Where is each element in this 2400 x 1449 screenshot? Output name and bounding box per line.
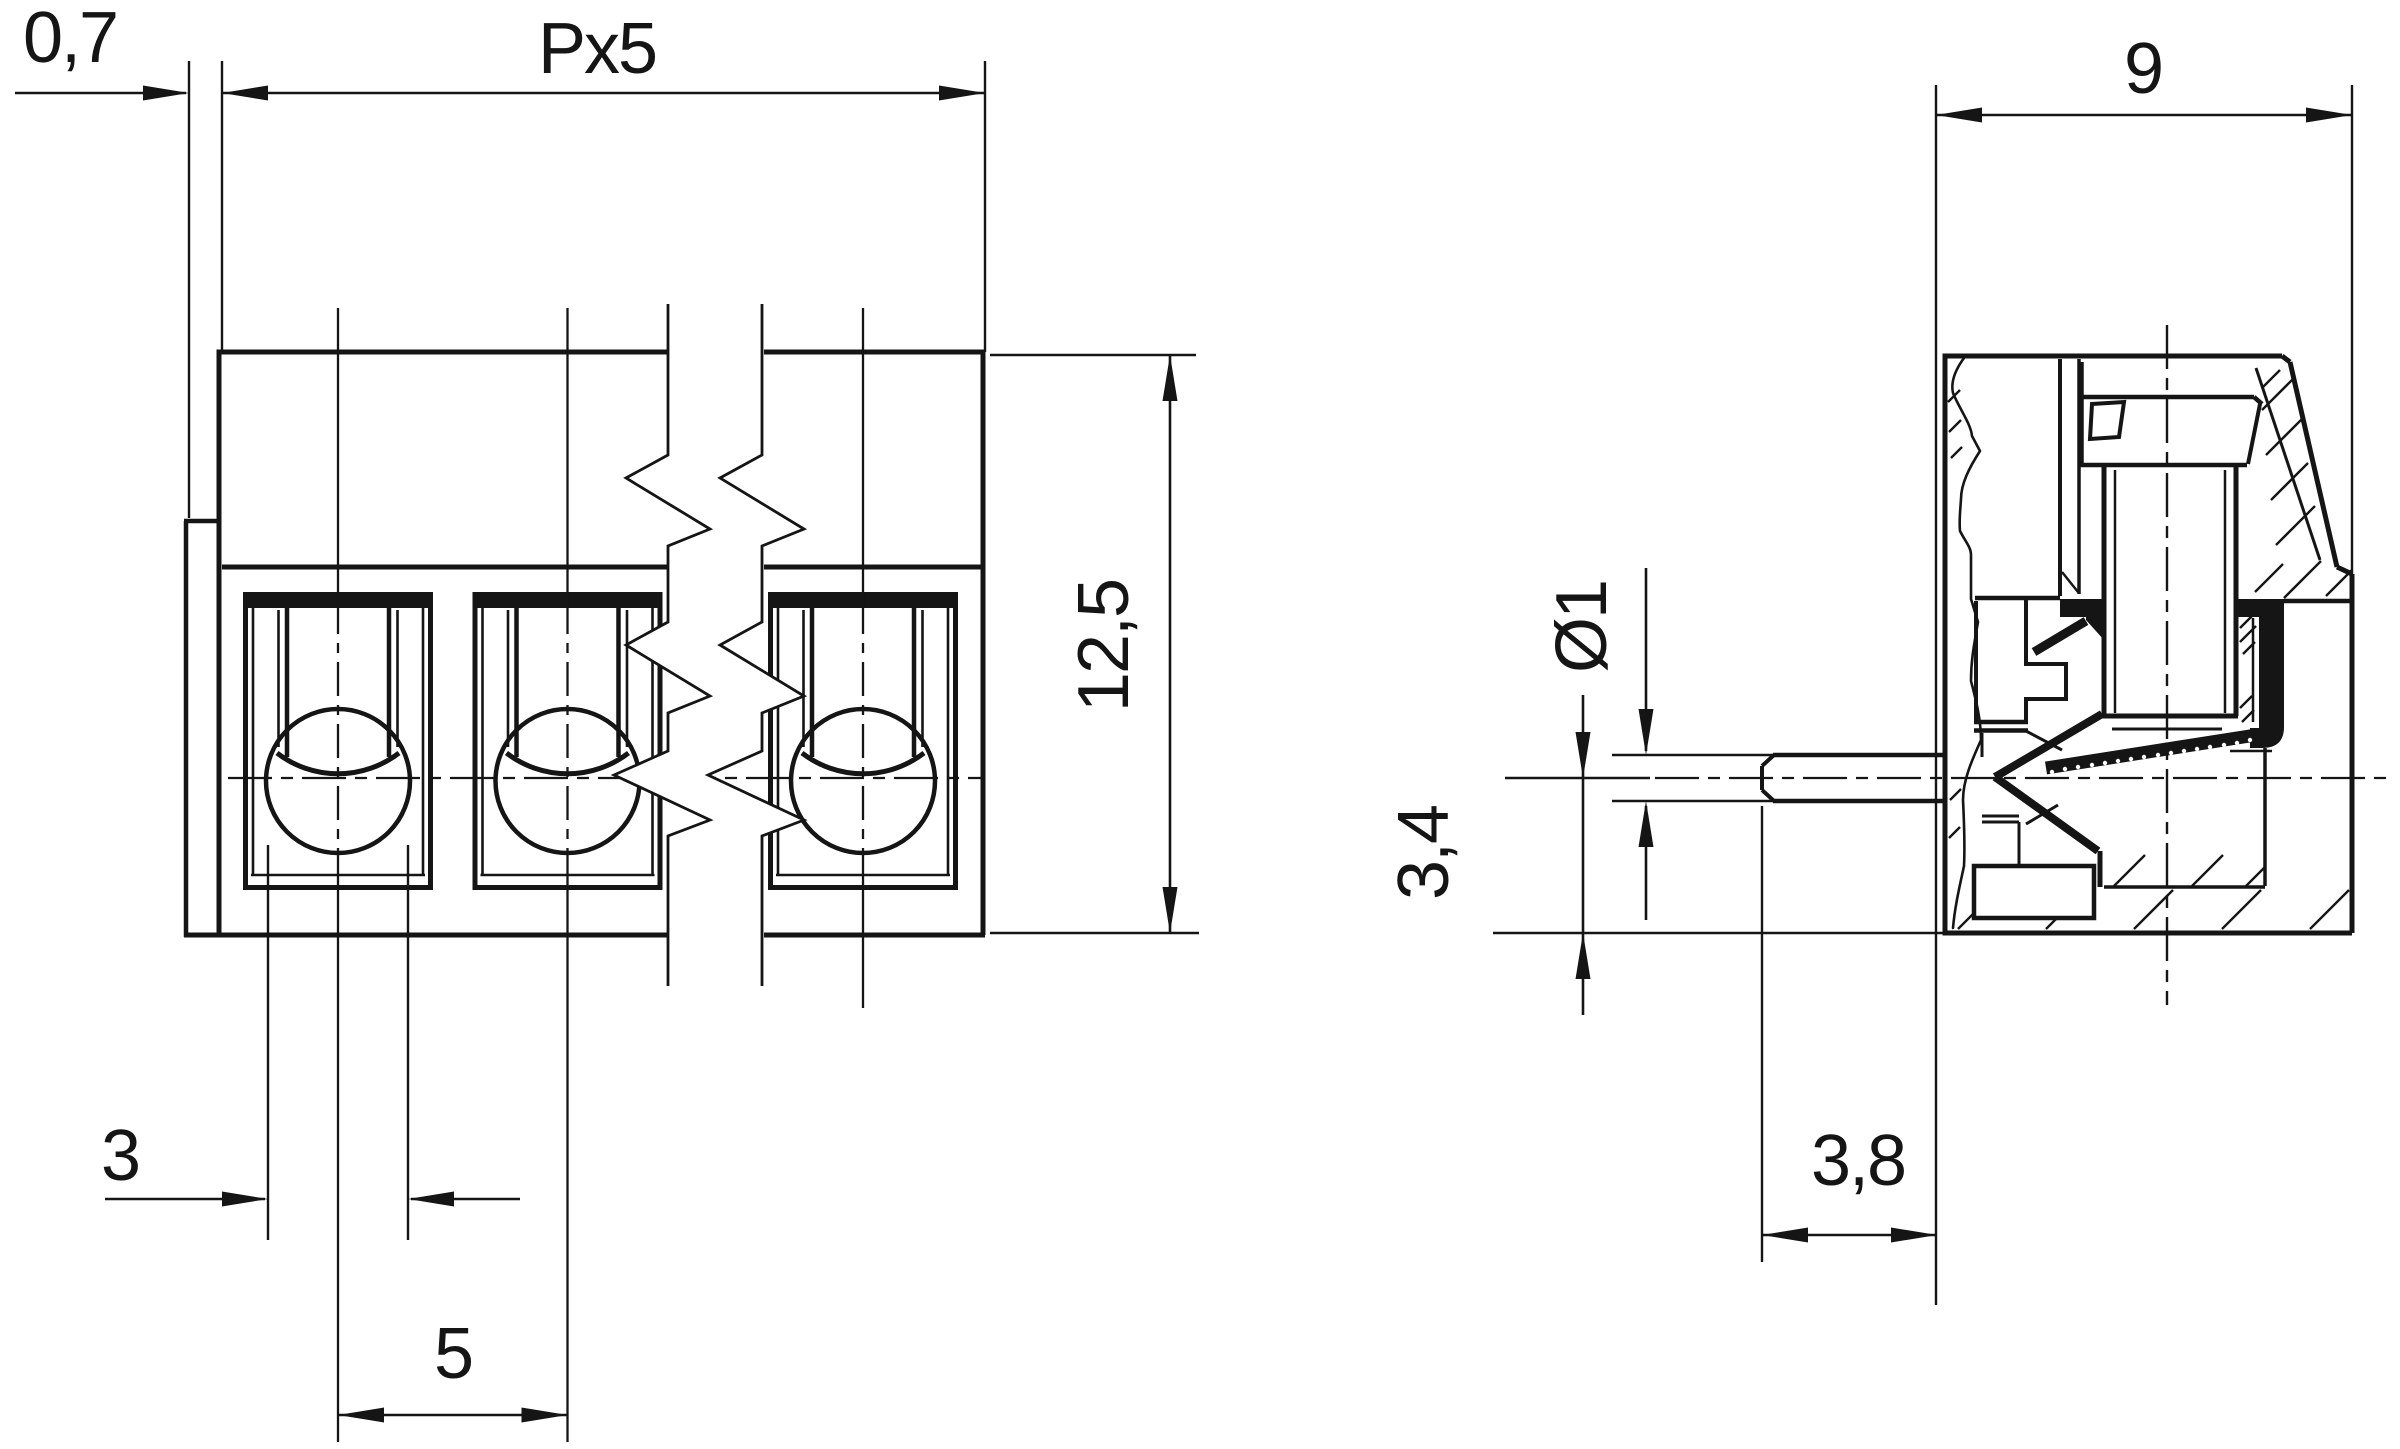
svg-text:12,5: 12,5 <box>1064 580 1144 712</box>
svg-text:Px5: Px5 <box>538 9 656 89</box>
svg-text:0,7: 0,7 <box>23 0 117 78</box>
svg-text:3: 3 <box>101 1116 139 1196</box>
svg-text:Ø1: Ø1 <box>1542 581 1622 673</box>
svg-text:3,8: 3,8 <box>1811 1121 1905 1201</box>
svg-text:3,4: 3,4 <box>1384 806 1464 900</box>
svg-text:5: 5 <box>434 1314 472 1394</box>
svg-text:9: 9 <box>2124 29 2162 109</box>
